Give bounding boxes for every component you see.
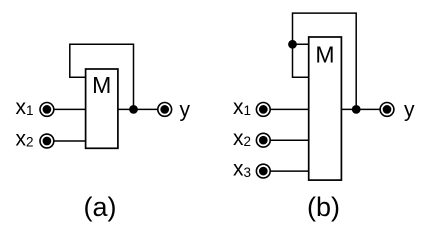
terminal x1 (b)	[256, 103, 270, 117]
svg-text:(b): (b)	[307, 192, 340, 222]
block M (b)	[309, 37, 342, 180]
terminal y (a)	[158, 103, 172, 117]
terminal x3 (b)	[256, 164, 270, 178]
terminal y (b)	[380, 103, 394, 117]
wire input x2 (a)	[54, 140, 85, 142]
terminal x2 (a)	[40, 134, 54, 148]
junction dot (b)	[352, 105, 361, 114]
svg-text:M: M	[92, 72, 111, 98]
terminal x1 (a)	[40, 103, 54, 117]
wire input x2 (b)	[271, 139, 309, 141]
block M (a)	[86, 69, 118, 148]
wire input x1 (a)	[54, 108, 85, 110]
svg-text:y: y	[404, 98, 415, 121]
svg-text:(a): (a)	[84, 192, 117, 222]
wire output y (b)	[341, 108, 379, 110]
wire feedback loop a (output to top of block)	[70, 44, 134, 109]
wire output y (a)	[118, 108, 157, 110]
junction dot (a)	[129, 105, 138, 114]
wire input x1 (b)	[271, 108, 309, 110]
svg-text:y: y	[180, 98, 191, 121]
wire feedback loop b (output to top of block)	[293, 13, 357, 109]
terminal x2 (b)	[256, 133, 270, 147]
wire input x3 (b)	[271, 170, 309, 172]
svg-text:M: M	[315, 42, 334, 68]
wire feedback branch b (to upper block input)	[293, 43, 309, 45]
junction dot feedback b	[288, 40, 297, 49]
